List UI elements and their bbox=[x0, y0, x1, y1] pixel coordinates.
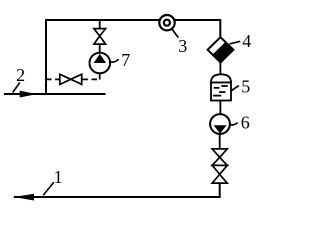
label 7 leader bbox=[110, 59, 119, 62]
wire top rail bbox=[46, 19, 220, 21]
pump 6 flow triangle (points down) bbox=[214, 125, 227, 133]
separator 5 fill dashes bbox=[213, 86, 228, 96]
svg-text:1: 1 bbox=[54, 167, 63, 187]
label 5 leader bbox=[231, 86, 239, 91]
label 2 leader bbox=[13, 83, 20, 93]
svg-text:6: 6 bbox=[241, 113, 250, 133]
label 3 leader bbox=[172, 29, 179, 38]
wire stub top rail to valve V1 bbox=[99, 20, 101, 29]
svg-text:5: 5 bbox=[241, 76, 250, 96]
pump 6 (circle) bbox=[210, 114, 230, 134]
label 1 leader bbox=[43, 182, 54, 195]
valve V1 (vertical bowtie above pump 7) bbox=[94, 29, 106, 44]
wire bottom rail (outlet line 1) bbox=[14, 196, 221, 198]
label 4 leader bbox=[230, 41, 241, 44]
wire stub pump 7 bottom to dashed line bbox=[99, 73, 101, 80]
arrow on line 1 (points left) bbox=[14, 194, 34, 201]
separator 5 (dome-top vessel) bbox=[211, 74, 231, 100]
svg-text:3: 3 bbox=[178, 36, 187, 56]
valve stack V3 (two bowties in series) bbox=[212, 149, 227, 183]
wire inlet line 2 bbox=[4, 93, 106, 95]
arrow on line 2 (points right) bbox=[20, 91, 37, 98]
svg-text:4: 4 bbox=[242, 31, 251, 51]
wire diamond 4 to separator 5 bbox=[219, 62, 221, 75]
gauge 3 (double circle on top rail) bbox=[159, 15, 174, 30]
wire left rail bbox=[45, 19, 47, 94]
component 4 (diamond, half filled) bbox=[208, 37, 234, 62]
wire right rail top segment bbox=[219, 19, 221, 38]
wire pump 6 to valve stack bbox=[219, 134, 221, 150]
wire right rail bottom segment bbox=[219, 183, 221, 197]
wire stub valve V1 to pump 7 bbox=[99, 44, 101, 53]
valve V2 (bowtie on dashed line) bbox=[60, 74, 82, 84]
wire dashed drain line bbox=[46, 78, 100, 80]
svg-text:7: 7 bbox=[121, 50, 130, 70]
pump 7 (circle) bbox=[90, 53, 111, 74]
svg-text:2: 2 bbox=[16, 65, 25, 85]
pump 7 flow triangle (points up) bbox=[94, 54, 106, 63]
label 6 leader bbox=[230, 123, 238, 125]
wire separator 5 to pump 6 bbox=[219, 101, 221, 115]
